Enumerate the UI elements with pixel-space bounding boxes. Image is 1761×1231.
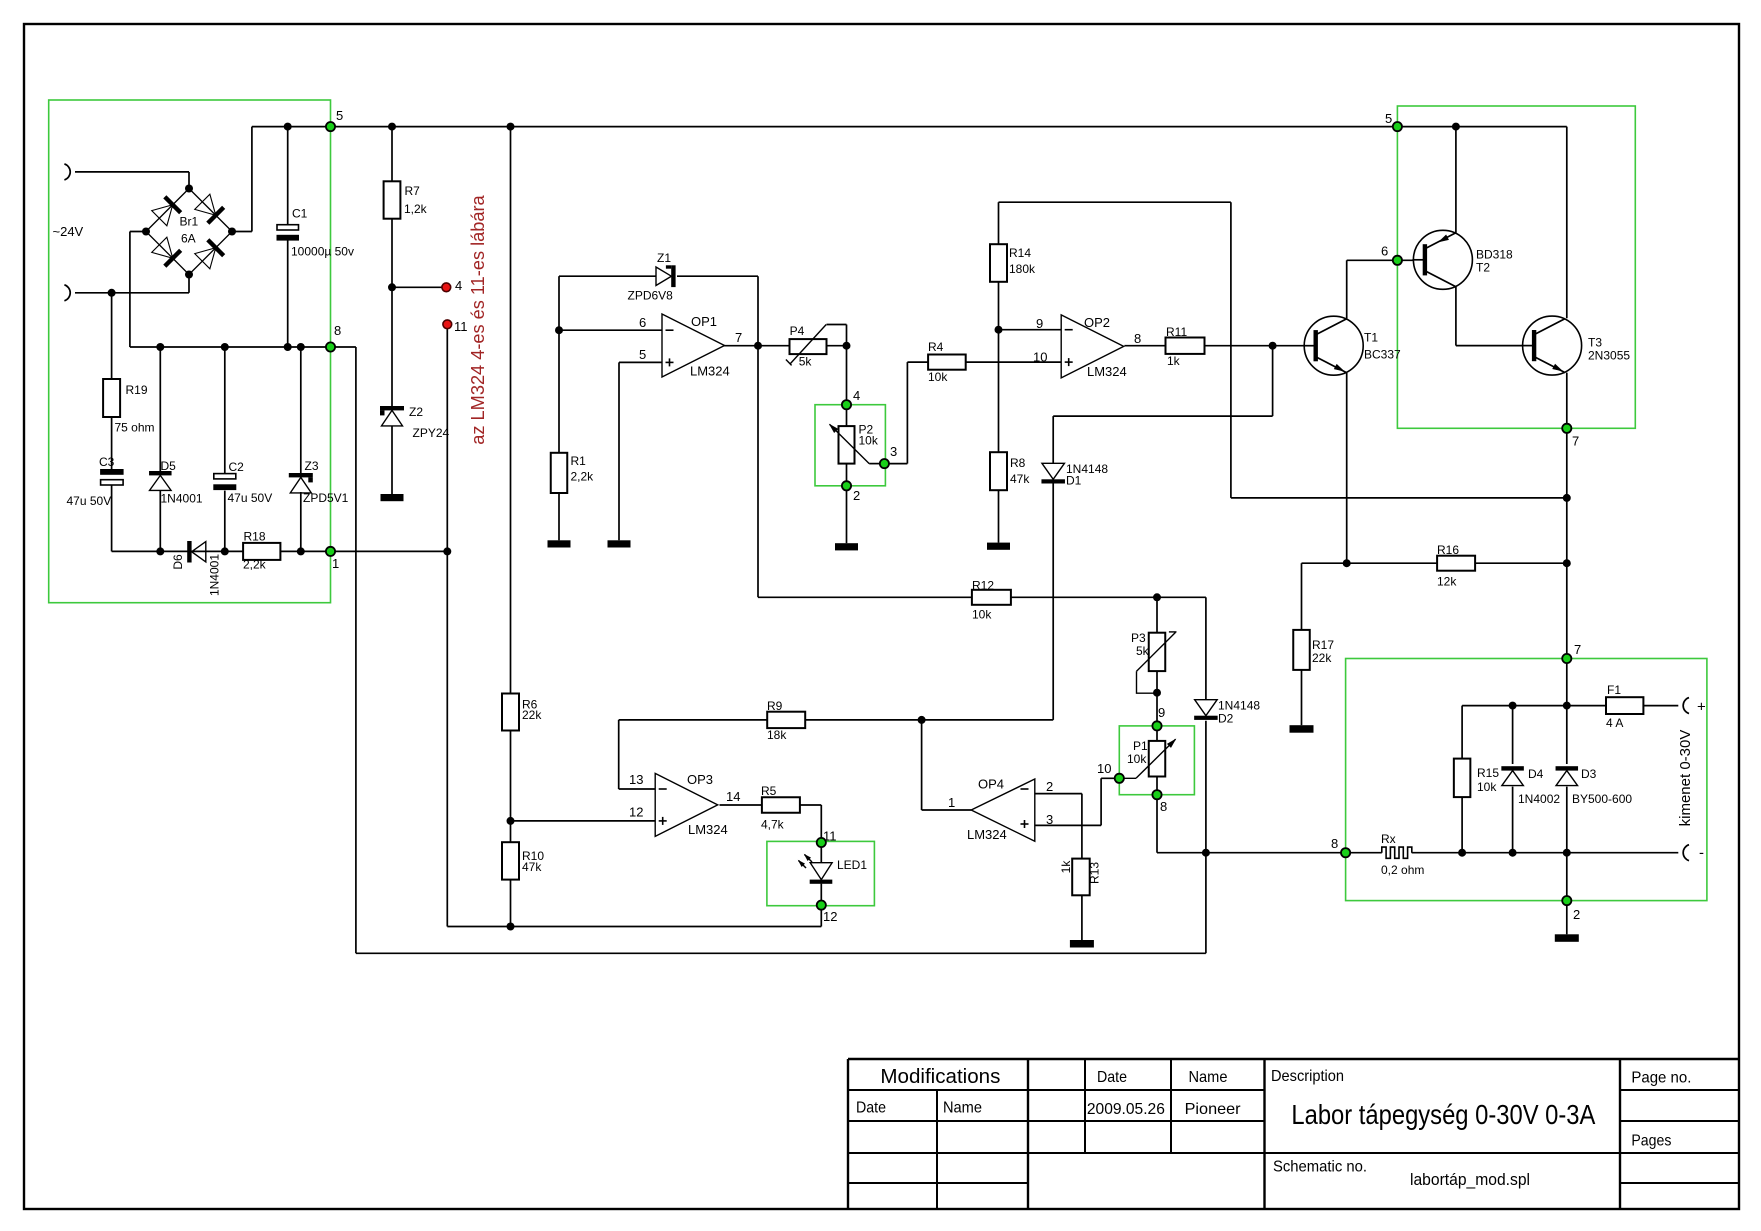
wire R17 branch	[1301, 563, 1303, 630]
wire OP1 pin 6	[559, 329, 662, 331]
wire plus line left to R15	[1462, 705, 1567, 707]
svg-text:Z2: Z2	[409, 405, 423, 419]
wire R9 line left	[619, 719, 768, 721]
wire T1 collector to node 6	[1346, 260, 1348, 318]
connector J2 AC bottom	[64, 285, 70, 301]
svg-text:2: 2	[853, 488, 860, 503]
junction dot R12 P3	[1153, 593, 1161, 601]
node 5 power box	[1393, 122, 1402, 131]
wire OP4 pin 3	[1035, 824, 1101, 826]
title block v line modif right	[1027, 1059, 1029, 1209]
svg-text:Date: Date	[856, 1099, 886, 1116]
wire top positive rail	[252, 126, 1567, 128]
svg-text:4: 4	[455, 278, 462, 293]
svg-text:1N4001: 1N4001	[208, 554, 222, 596]
title block outer lines	[848, 1058, 1739, 1060]
wire R8 to ground	[998, 490, 1000, 542]
svg-text:LM324: LM324	[1087, 364, 1127, 379]
svg-text:C2: C2	[229, 460, 245, 474]
svg-text:R14: R14	[1009, 246, 1031, 260]
wire R14 top	[998, 202, 1000, 244]
wire P3 top	[1156, 597, 1158, 632]
svg-text:6A: 6A	[181, 232, 196, 246]
wire OP3 pin 12	[511, 820, 656, 822]
svg-text:180k: 180k	[1009, 262, 1036, 276]
svg-text:R12: R12	[972, 579, 994, 593]
fuse F1 4A	[1606, 697, 1643, 714]
wire D4 branch	[1512, 706, 1514, 764]
junction dot OP3 pin12	[507, 817, 515, 825]
wire R19 branch	[111, 293, 113, 379]
svg-text:2,2k: 2,2k	[571, 470, 595, 484]
capacitor C2 47u 50V	[214, 474, 236, 479]
potentiometer P3 5k	[1149, 633, 1166, 671]
input section green box	[49, 100, 331, 603]
connector J1 AC top	[64, 164, 70, 180]
wire node 8 to output box	[1157, 852, 1346, 854]
wire bridge minus to rail 8	[130, 231, 146, 233]
node 9 green P1	[1152, 721, 1161, 730]
output section green box	[1346, 659, 1707, 901]
diode D3 BY500-600	[1556, 766, 1579, 770]
diode D2 1N4148	[1195, 700, 1218, 716]
svg-text:C1: C1	[292, 207, 308, 221]
svg-text:8: 8	[1160, 799, 1167, 814]
junction dot R11 T1 node	[1269, 342, 1277, 350]
svg-text:1N4002: 1N4002	[1518, 792, 1560, 806]
svg-text:10: 10	[1097, 761, 1111, 776]
svg-text:LM324: LM324	[690, 364, 730, 379]
svg-text:LM324: LM324	[688, 822, 728, 837]
wire node 8 long down-right loop	[355, 347, 357, 953]
resistor R9 18k	[767, 712, 805, 728]
svg-text:C3: C3	[99, 455, 115, 469]
node 7 power box	[1562, 424, 1571, 433]
svg-text:ZPD6V8: ZPD6V8	[628, 289, 674, 303]
svg-text:7: 7	[1574, 642, 1581, 657]
svg-text:10k: 10k	[859, 434, 879, 448]
capacitor C3 47u 50V	[100, 469, 124, 475]
ground under OP1 pin5	[608, 540, 631, 547]
connector output minus	[1683, 845, 1689, 861]
svg-text:0,2 ohm: 0,2 ohm	[1381, 863, 1424, 877]
svg-text:11: 11	[823, 829, 837, 844]
wire D2 leg down	[1205, 597, 1207, 699]
wire P1 to node 8	[1156, 777, 1158, 795]
wire T1 emitter down	[1346, 373, 1348, 563]
svg-text:Pioneer: Pioneer	[1185, 1101, 1242, 1118]
node 2 output box	[1562, 896, 1571, 905]
svg-text:T2: T2	[1476, 261, 1490, 275]
wire node 8 horizontal rail	[130, 346, 356, 348]
op-amp OP1 LM324	[662, 314, 725, 377]
svg-text:5: 5	[336, 108, 343, 123]
power stage green box	[1397, 106, 1635, 428]
wire OP4 pin 2	[1035, 793, 1082, 795]
wire R1 branch	[558, 330, 560, 453]
svg-text:R4: R4	[928, 340, 944, 354]
node 8 input	[326, 342, 335, 351]
svg-text:R13: R13	[1088, 862, 1102, 884]
wire T3 collector to rail	[1566, 127, 1568, 319]
node 8 green P1	[1152, 790, 1161, 799]
resistor R11 1k	[1166, 338, 1205, 354]
op-amp OP3 LM324	[655, 773, 718, 836]
svg-text:2: 2	[1046, 779, 1053, 794]
svg-text:3: 3	[1046, 812, 1053, 827]
svg-text:labortáp_mod.spl: labortáp_mod.spl	[1410, 1171, 1530, 1189]
svg-text:5: 5	[639, 347, 646, 362]
op-amp OP2 LM324	[1061, 315, 1124, 378]
LED1 green box	[767, 841, 875, 905]
wire Z2 to ground	[391, 426, 393, 495]
wire node 1 bottom rail	[112, 550, 447, 552]
svg-text:OP4: OP4	[978, 777, 1004, 792]
junction dot D4 bottom	[1509, 849, 1517, 857]
wire node 3 to R4	[884, 463, 907, 465]
svg-text:2: 2	[1573, 907, 1580, 922]
svg-text:~24V: ~24V	[53, 224, 84, 239]
ground under R8	[987, 543, 1010, 550]
resistor R13 1k	[1072, 859, 1090, 896]
wire Z1 right leg down to R12	[757, 276, 759, 597]
node 10 green P1 wiper	[1115, 774, 1124, 783]
svg-text:6: 6	[639, 315, 646, 330]
node 2 green P2	[842, 481, 851, 490]
junction dot P3 bottom	[1153, 689, 1161, 697]
junction dots input section	[284, 123, 292, 131]
svg-text:OP2: OP2	[1084, 315, 1110, 330]
wire R12 right	[1011, 596, 1206, 598]
wire R13 to ground	[1081, 895, 1083, 940]
svg-text:F1: F1	[1607, 683, 1621, 697]
svg-text:1k: 1k	[1059, 860, 1073, 874]
wire R5 to node 11	[800, 804, 821, 806]
resistor R19 75 ohm	[103, 379, 120, 417]
svg-text:10k: 10k	[928, 370, 948, 384]
diode D1 1N4148	[1042, 463, 1065, 479]
svg-text:D4: D4	[1528, 767, 1544, 781]
svg-text:Rx: Rx	[1381, 832, 1396, 846]
wire node 6 to T2 base	[1397, 259, 1414, 261]
wire OP3 pin 13	[618, 720, 620, 789]
svg-text:10k: 10k	[972, 608, 992, 622]
title block h line 2	[848, 1089, 1265, 1091]
wire feedback to T3 emitter	[1231, 497, 1567, 499]
svg-text:10k: 10k	[1127, 752, 1147, 766]
resistor R14 180k	[990, 244, 1007, 282]
svg-text:11: 11	[454, 319, 468, 334]
wire R12 left	[758, 596, 972, 598]
svg-text:T1: T1	[1364, 331, 1378, 345]
zener Z2 ZPY24	[380, 406, 404, 410]
svg-text:D2: D2	[1218, 712, 1234, 726]
svg-text:Page no.: Page no.	[1631, 1070, 1691, 1087]
svg-text:7: 7	[1572, 434, 1579, 449]
svg-text:kimenet 0-30V: kimenet 0-30V	[1677, 730, 1694, 827]
resistor R16 12k	[1437, 556, 1475, 571]
svg-text:P3: P3	[1131, 631, 1146, 645]
wire R6 R10 branch	[510, 127, 512, 694]
svg-text:D1: D1	[1066, 474, 1082, 488]
wire R9 line right	[805, 719, 1053, 721]
wire Z3 branch	[300, 347, 302, 473]
wire AC input top	[75, 171, 189, 173]
wire OP1 output	[724, 345, 790, 347]
svg-text:Name: Name	[943, 1099, 982, 1116]
svg-text:7: 7	[735, 330, 742, 345]
svg-text:ZPY24: ZPY24	[413, 426, 450, 440]
svg-text:2009.05.26: 2009.05.26	[1087, 1101, 1165, 1118]
svg-text:LM324: LM324	[967, 827, 1007, 842]
wire OP2 output	[1124, 345, 1165, 347]
svg-text:1N4001: 1N4001	[161, 492, 203, 506]
svg-text:R5: R5	[761, 784, 777, 798]
wire P2 wiper to node 3	[869, 463, 884, 465]
junction dot OP1 out	[754, 342, 762, 350]
wire OP1 pin 5 to ground	[618, 362, 620, 540]
svg-text:R8: R8	[1010, 456, 1026, 470]
resistor R6 22k	[502, 694, 519, 731]
P1 green box	[1119, 726, 1194, 795]
svg-text:R18: R18	[244, 530, 266, 544]
potentiometer P1 10k	[1149, 741, 1166, 777]
wire R4 to OP2 pin 10	[966, 361, 1061, 363]
wire Z1 feedback loop	[559, 275, 656, 277]
junction dot D2 rail	[1202, 849, 1210, 857]
svg-text:Schematic no.: Schematic no.	[1273, 1159, 1367, 1176]
node 3 green P2 wiper	[880, 459, 889, 468]
wire node 4 to P2	[846, 405, 848, 426]
junction dot R16 right	[1563, 559, 1571, 567]
svg-text:BC337: BC337	[1364, 348, 1401, 362]
ground under R13	[1070, 940, 1094, 948]
svg-text:D6: D6	[171, 554, 185, 570]
resistor R8 47k	[990, 452, 1007, 490]
svg-text:R17: R17	[1312, 638, 1334, 652]
wire T2 collector to T3 base	[1455, 287, 1457, 346]
wire node 2 to ground	[846, 486, 848, 543]
title block v line description	[1263, 1059, 1265, 1209]
svg-text:4: 4	[853, 388, 860, 403]
title block v line page col	[1619, 1059, 1621, 1209]
svg-text:R19: R19	[126, 383, 148, 397]
resistor R12 10k	[972, 590, 1011, 605]
svg-text:12k: 12k	[1437, 575, 1457, 589]
wire R11 to T1 base	[1205, 345, 1305, 347]
resistor R1 2,2k	[551, 453, 568, 493]
ground under Z2	[381, 494, 404, 501]
svg-text:ZPD5V1: ZPD5V1	[303, 491, 349, 505]
title block h line 4	[848, 1152, 1028, 1154]
svg-text:R9: R9	[767, 699, 783, 713]
node 1 input	[326, 547, 335, 556]
resistor R17 22k	[1293, 630, 1310, 670]
wire T2 emitter to rail	[1455, 127, 1457, 233]
ground under P2	[835, 543, 858, 550]
svg-text:1: 1	[948, 795, 955, 810]
svg-text:18k: 18k	[767, 728, 787, 742]
wire R16 line	[1302, 562, 1438, 564]
svg-text:22k: 22k	[1312, 651, 1332, 665]
svg-text:47k: 47k	[1010, 472, 1030, 486]
svg-text:D5: D5	[161, 459, 177, 473]
title block v line date name	[936, 1090, 938, 1209]
junction dot OP4 out R9	[918, 716, 926, 724]
wire T3 emitter down spine	[1566, 373, 1568, 706]
svg-text:Description: Description	[1271, 1068, 1344, 1085]
potentiometer P2 10k	[839, 426, 855, 464]
resistor R18 2,2k	[243, 543, 280, 560]
wire C3 to bottom rail	[111, 486, 113, 552]
svg-text:Modifications: Modifications	[880, 1066, 1000, 1088]
wire R7 branch	[391, 127, 393, 182]
svg-text:P4: P4	[790, 324, 805, 338]
svg-text:OP1: OP1	[691, 314, 717, 329]
wire P4 to node 4	[827, 345, 847, 347]
svg-text:Z1: Z1	[657, 251, 671, 265]
LED LED1	[810, 863, 832, 880]
wire P4 wiper link	[827, 324, 847, 326]
wire node 11 vertical	[446, 326, 448, 551]
wire OP2 pin 9	[999, 329, 1062, 331]
svg-text:10000µ 50v: 10000µ 50v	[291, 245, 354, 259]
junction dot P4 right	[843, 342, 851, 350]
svg-text:R1: R1	[571, 454, 587, 468]
svg-text:2,2k: 2,2k	[243, 558, 267, 572]
svg-text:1: 1	[332, 556, 339, 571]
svg-text:1,2k: 1,2k	[404, 202, 428, 216]
svg-text:10k: 10k	[1477, 780, 1497, 794]
ground under R1	[548, 540, 571, 547]
svg-text:9: 9	[1158, 705, 1165, 720]
svg-text:Labor tápegység 0-30V 0-3A: Labor tápegység 0-30V 0-3A	[1291, 1099, 1595, 1130]
resistor R5 4,7k	[762, 797, 800, 813]
zener Z3 ZPD5V1	[289, 473, 313, 477]
node 11 green LED	[817, 838, 826, 847]
resistor R10 47k	[502, 842, 519, 879]
wire node 4 stub	[392, 286, 443, 288]
svg-text:P1: P1	[1133, 739, 1148, 753]
svg-text:47u 50V: 47u 50V	[228, 491, 273, 505]
svg-text:Name: Name	[1189, 1069, 1228, 1086]
ground output	[1555, 934, 1579, 942]
svg-text:1k: 1k	[1167, 354, 1181, 368]
diode D5 1N4001	[149, 471, 172, 475]
bridge rectifier Br1 6A	[189, 189, 232, 232]
wire AC input bottom	[75, 292, 189, 294]
title block v line col2	[1084, 1059, 1086, 1153]
junction dot D4 top	[1509, 702, 1517, 710]
svg-text:13: 13	[629, 772, 643, 787]
node 11 red	[443, 320, 452, 329]
wire C1 branch	[287, 127, 289, 225]
wire P3 to P1 node 9	[1156, 693, 1158, 741]
node 7 output box	[1562, 654, 1571, 663]
svg-text:5: 5	[1385, 111, 1392, 126]
junction dot R15 bottom	[1458, 849, 1466, 857]
connector output plus	[1683, 698, 1689, 714]
wire OP3 output	[720, 804, 762, 806]
svg-text:R16: R16	[1437, 543, 1459, 557]
svg-text:R7: R7	[405, 184, 421, 198]
svg-text:Date: Date	[1097, 1069, 1127, 1086]
resistor Rx 0,2 ohm zigzag	[1382, 847, 1412, 858]
svg-text:47u 50V: 47u 50V	[67, 494, 112, 508]
svg-text:Br1: Br1	[180, 215, 199, 229]
title block h line 5	[848, 1182, 1028, 1184]
svg-text:-: -	[1699, 845, 1704, 862]
junction dot T2 emitter rail	[1452, 123, 1460, 131]
wire OP2 feedback top	[999, 201, 1231, 203]
title block h line 3	[848, 1120, 1265, 1122]
junction dot F1 node	[1563, 702, 1571, 710]
svg-text:LED1: LED1	[837, 858, 867, 872]
svg-text:8: 8	[334, 323, 341, 338]
P2 green box	[815, 405, 885, 486]
diode D6 1N4001 horizontal	[187, 541, 191, 563]
resistor R7 1,2k	[384, 181, 401, 218]
wire R14 to pin 9 node	[998, 282, 1000, 330]
junction dot R10 bottom	[507, 923, 515, 931]
svg-text:10: 10	[1033, 350, 1047, 365]
wire pin 9 node to R8	[998, 330, 1000, 453]
svg-text:BY500-600: BY500-600	[1572, 792, 1632, 806]
node 12 green LED	[817, 901, 826, 910]
wire D1 to R9 line	[1052, 483, 1054, 720]
resistor R4 10k	[928, 355, 966, 370]
svg-text:5k: 5k	[799, 355, 813, 369]
wire P2 to node 2	[846, 464, 848, 486]
svg-text:47k: 47k	[522, 860, 542, 874]
node 4 green P2	[842, 400, 851, 409]
svg-text:12: 12	[629, 805, 643, 820]
svg-text:2N3055: 2N3055	[1588, 349, 1630, 363]
svg-text:Z3: Z3	[305, 459, 319, 473]
wire OP4 output	[922, 809, 972, 811]
svg-text:5k: 5k	[1136, 644, 1150, 658]
node 6 power box	[1393, 256, 1402, 265]
transistor T1 BC337	[1304, 316, 1363, 375]
svg-text:8: 8	[1134, 331, 1141, 346]
wire P3 bottom	[1156, 671, 1158, 693]
potentiometer P4 5k	[790, 339, 827, 354]
svg-text:3: 3	[890, 444, 897, 459]
svg-text:4,7k: 4,7k	[761, 818, 785, 832]
wire R7 to Z2	[391, 287, 393, 406]
svg-text:R11: R11	[1166, 325, 1187, 339]
svg-text:22k: 22k	[522, 708, 542, 722]
wire D3 branch	[1566, 706, 1568, 764]
junction dot pin9	[995, 326, 1003, 334]
svg-text:1N4148: 1N4148	[1218, 699, 1260, 713]
wire D1 loop from R11 node	[1272, 346, 1274, 416]
junction dot D3 bottom	[1563, 849, 1571, 857]
node 4 red	[442, 283, 451, 292]
svg-text:Pages: Pages	[1631, 1133, 1671, 1150]
wire node 2 output ground	[1566, 853, 1568, 901]
wire R15 branch	[1461, 706, 1463, 759]
junction dot feedback emitter	[1563, 494, 1571, 502]
transistor T3 2N3055	[1523, 316, 1582, 375]
svg-text:6: 6	[1381, 244, 1388, 259]
junction dot OP1 pin6	[555, 326, 563, 334]
op-amp OP4 LM324 mirrored	[971, 779, 1035, 841]
wire D5 branch	[159, 347, 161, 471]
junction dot R16 left	[1343, 559, 1351, 567]
svg-text:4 A: 4 A	[1606, 716, 1623, 730]
wire output minus rail	[1346, 852, 1382, 854]
